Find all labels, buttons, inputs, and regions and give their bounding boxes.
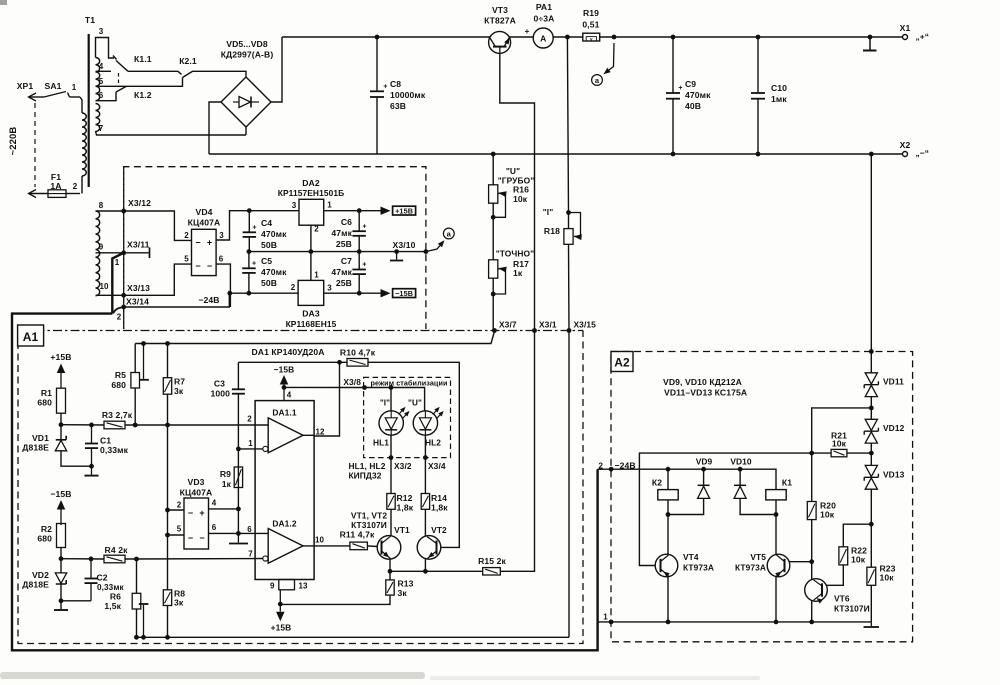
svg-text:−: − (207, 261, 212, 271)
wire R22 to VT6 base (826, 565, 843, 585)
ground A2 (870, 622, 872, 626)
net +15V op-amp supply (278, 602, 283, 607)
svg-text:25В: 25В (336, 239, 352, 249)
svg-text:1,8к: 1,8к (397, 503, 414, 513)
op-amp input 1 wire (236, 447, 241, 452)
wire VT3 base to X3/1 (500, 53, 535, 571)
svg-text:1: 1 (603, 613, 608, 622)
svg-text:VD4: VD4 (195, 207, 212, 217)
A1 bottom rail (134, 636, 569, 638)
wire pot chain (492, 154, 494, 185)
svg-text:1мк: 1мк (771, 94, 787, 104)
svg-text:VD3: VD3 (187, 477, 204, 487)
svg-text:DA2: DA2 (302, 178, 320, 188)
svg-text:4: 4 (212, 499, 217, 508)
wire VD11/VD12 node left (812, 408, 872, 453)
svg-text:X3/2: X3/2 (394, 461, 412, 471)
svg-text:6: 6 (212, 523, 217, 532)
svg-text:X3/14: X3/14 (126, 297, 149, 307)
X3 connector dashed line (123, 167, 125, 329)
svg-text:X3/7: X3/7 (499, 320, 517, 330)
svg-text:1к: 1к (222, 479, 232, 489)
svg-text:VT1: VT1 (394, 525, 410, 535)
svg-text:−24В: −24В (198, 295, 219, 305)
svg-text:КЦ407А: КЦ407А (188, 218, 221, 228)
svg-text:КТ3107И: КТ3107И (351, 520, 387, 530)
svg-text:C9: C9 (685, 79, 696, 89)
svg-text:−: − (188, 533, 193, 543)
svg-text:VТ6: VТ6 (834, 594, 850, 604)
svg-text:С5: С5 (261, 256, 272, 266)
svg-text:С7: С7 (341, 256, 352, 266)
T1 primary winding (80, 97, 82, 113)
scan speck top-left (0, 0, 7, 5)
wire DA2 pin2 (310, 225, 312, 251)
svg-text:DA1.1: DA1.1 (272, 408, 296, 418)
T1 secondary winding 7 (96, 104, 100, 132)
scan smudge bottom (0, 672, 425, 679)
svg-text:VD11–VD13 КС175А: VD11–VD13 КС175А (664, 388, 747, 398)
svg-text:VD2: VD2 (32, 570, 49, 580)
svg-text:X3/11: X3/11 (127, 240, 150, 250)
svg-text:R6: R6 (110, 592, 121, 602)
svg-text:X3/13: X3/13 (127, 283, 150, 293)
svg-text:КР1157ЕН1501Б: КР1157ЕН1501Б (278, 188, 344, 198)
svg-text:С6: С6 (341, 217, 352, 227)
svg-text:12: 12 (315, 428, 325, 437)
svg-text:7: 7 (248, 550, 253, 559)
svg-text:А2: А2 (614, 356, 630, 370)
node at box edge (424, 249, 429, 254)
capacitor C6 (358, 211, 360, 232)
svg-text:Х1: Х1 (900, 23, 911, 33)
wire zener node to R3 (61, 424, 104, 426)
svg-text:3: 3 (327, 284, 332, 293)
connector stub on top rail (141, 341, 146, 346)
capacitor C2 0.33mk (89, 557, 94, 562)
svg-text:С1: С1 (100, 436, 111, 446)
svg-text:С3: С3 (214, 379, 225, 389)
svg-text:−: − (195, 238, 200, 248)
svg-text:+: + (362, 224, 366, 231)
svg-text:VT3: VT3 (492, 5, 508, 15)
svg-text:X3/12: X3/12 (128, 198, 151, 208)
svg-text:+: + (383, 84, 387, 91)
svg-text:6: 6 (99, 91, 104, 100)
wire X2 to zener chain (870, 154, 872, 373)
svg-text:КД2997(А-В): КД2997(А-В) (221, 50, 274, 60)
wire R2 node to R4 (61, 558, 104, 560)
svg-text:3к: 3к (398, 588, 408, 598)
X2 bus wire (209, 153, 902, 155)
svg-text:470мк: 470мк (261, 267, 287, 277)
svg-text:"I": "I" (380, 399, 390, 408)
svg-text:R14: R14 (431, 493, 447, 503)
XP1 dashed link (34, 103, 36, 187)
wire C2 to VD2 foot (61, 600, 91, 602)
svg-text:VT5: VT5 (750, 552, 766, 562)
svg-text:"U": "U" (408, 399, 422, 408)
svg-text:13: 13 (299, 582, 309, 591)
svg-text:−: − (195, 261, 200, 271)
wire VD4 pin6 down (216, 264, 230, 307)
svg-text:К2.1: К2.1 (179, 56, 197, 66)
wire DA3 pin3 to -15V (324, 292, 381, 294)
capacitor C1 0.33mk (89, 423, 94, 428)
dashed regulator box (124, 167, 426, 329)
mid rail 0V wire (249, 251, 426, 253)
svg-text:1: 1 (115, 258, 120, 267)
svg-text:50В: 50В (261, 278, 277, 288)
svg-text:VT4: VT4 (683, 552, 699, 562)
svg-text:+: + (199, 508, 204, 518)
wire VD13 node to R22 (843, 524, 871, 547)
capacitor C7 (358, 252, 360, 270)
VD3 pin4 wire (209, 508, 239, 510)
svg-text:10к: 10к (851, 555, 866, 565)
svg-text:47мк: 47мк (331, 267, 352, 277)
label A1 (18, 325, 44, 346)
svg-text:КИПД32: КИПД32 (348, 471, 381, 481)
wire bridge AC bottom (245, 127, 247, 135)
svg-text:С2: С2 (97, 573, 108, 583)
svg-text:−15В: −15В (395, 289, 413, 298)
wire VT4 base row (639, 453, 811, 565)
svg-text:+15В: +15В (395, 206, 413, 215)
svg-text:HL1: HL1 (373, 438, 389, 448)
svg-text:6: 6 (247, 525, 252, 534)
wire X3/8 row (284, 387, 425, 410)
measurement point a (mid) (426, 242, 444, 252)
emitter rail wire to R15 (390, 570, 483, 572)
svg-text:X3/10: X3/10 (393, 240, 416, 250)
svg-text:+15В: +15В (50, 352, 71, 362)
T1 secondary winding 8-10 (96, 211, 100, 296)
svg-text:1,8к: 1,8к (431, 503, 448, 513)
top bus wire (282, 36, 490, 38)
K1 mechanical link (118, 73, 120, 85)
svg-text:470мк: 470мк (261, 229, 287, 239)
svg-text:VT1, VT2: VT1, VT2 (351, 511, 387, 521)
wire -24V row (229, 292, 298, 294)
svg-text:+: + (252, 261, 256, 268)
capacitor C10 (756, 35, 761, 40)
svg-text:2: 2 (314, 225, 319, 234)
svg-text:КТ973А: КТ973А (683, 563, 714, 573)
svg-text:1: 1 (72, 83, 77, 92)
capacitor C9 (671, 35, 676, 40)
svg-text:режим стабилизации: режим стабилизации (370, 378, 447, 387)
A1 top rail wire (135, 332, 494, 344)
svg-text:X3/8: X3/8 (343, 377, 361, 387)
svg-text:"ТОЧНО": "ТОЧНО" (496, 249, 535, 259)
svg-text:R15 2к: R15 2к (478, 556, 506, 566)
svg-text:"I": "I" (543, 207, 554, 217)
VD3 pin2 wire (168, 509, 185, 511)
stabilization mode dashed box (364, 377, 451, 457)
svg-text:680: 680 (111, 380, 126, 390)
svg-text:R13: R13 (398, 579, 414, 589)
node X2 bus to pots (491, 152, 496, 157)
svg-text:А1: А1 (23, 330, 39, 344)
svg-text:−: − (188, 508, 193, 518)
ground stub below VD3 row (236, 531, 241, 536)
svg-text:2: 2 (291, 283, 296, 292)
svg-text:−15В: −15В (274, 365, 295, 375)
svg-text:47мк: 47мк (331, 228, 352, 238)
svg-text:VD9: VD9 (696, 457, 713, 467)
svg-text:R9: R9 (220, 469, 231, 479)
wire R4 to op-amp input 7 (125, 558, 263, 561)
regulator DA3 KR1168EN15 (298, 280, 324, 305)
svg-text:680: 680 (37, 398, 52, 408)
wire bridge plus to top bus (271, 37, 282, 102)
svg-text:R3 2,7к: R3 2,7к (102, 410, 133, 420)
svg-text:2: 2 (247, 415, 252, 424)
svg-text:2: 2 (73, 182, 78, 191)
svg-text:КР1168ЕН15: КР1168ЕН15 (286, 319, 337, 329)
svg-text:5: 5 (99, 77, 104, 86)
node top bus at shunt left (565, 35, 570, 40)
svg-text:Т1: Т1 (85, 15, 95, 25)
svg-text:VT2: VT2 (431, 525, 447, 535)
capacitor C8 (375, 35, 380, 40)
svg-text:4: 4 (287, 391, 292, 400)
svg-text:+: + (362, 262, 366, 269)
wire taps to K2.1 (128, 70, 178, 72)
svg-text:R19: R19 (583, 8, 599, 18)
svg-text:А: А (540, 34, 546, 44)
VD3 pin6 wire to DA1.2 input 6 (209, 532, 269, 534)
output +15V (381, 207, 391, 215)
svg-text:Д818Е: Д818Е (22, 443, 49, 453)
svg-text:R11 4,7к: R11 4,7к (340, 530, 375, 540)
svg-text:3: 3 (292, 201, 297, 210)
wire R3 to op-amp input 2 (125, 424, 268, 426)
svg-text:С10: С10 (771, 83, 787, 93)
svg-text:КЦ407А: КЦ407А (180, 488, 213, 498)
svg-text:SA1: SA1 (44, 81, 61, 91)
svg-text:VD5...VD8: VD5...VD8 (226, 39, 268, 49)
svg-text:VD1: VD1 (32, 433, 49, 443)
wire VD4 pin3 to C4 rail (216, 211, 299, 240)
svg-text:10: 10 (99, 282, 109, 291)
svg-text:VD9, VD10 КД212А: VD9, VD10 КД212А (663, 377, 742, 387)
svg-text:40В: 40В (685, 101, 701, 111)
svg-text:7: 7 (99, 124, 104, 133)
svg-text:R16: R16 (513, 185, 529, 195)
svg-text:25В: 25В (336, 278, 352, 288)
svg-text:+15В: +15В (271, 623, 292, 633)
svg-text:4: 4 (99, 62, 104, 71)
svg-text:3: 3 (219, 231, 224, 240)
svg-text:а: а (447, 230, 452, 239)
svg-text:К1.2: К1.2 (134, 90, 152, 100)
wire R10 row (238, 361, 347, 363)
wire DA2 pin1 to +15V (324, 210, 381, 212)
svg-text:680: 680 (37, 534, 52, 544)
svg-text:0÷3А: 0÷3А (534, 14, 555, 24)
wire DA3 pin1 (310, 252, 312, 281)
svg-text:10к: 10к (513, 194, 528, 204)
ground VD2/C2 (54, 609, 68, 611)
svg-text:8: 8 (99, 201, 104, 210)
svg-text:R18: R18 (544, 226, 560, 236)
svg-text:1к: 1к (513, 268, 523, 278)
measurement point a (top) (605, 43, 614, 73)
svg-text:X3/15: X3/15 (574, 320, 597, 330)
svg-text:+: + (525, 27, 530, 36)
wire K2.1 to bridge (193, 71, 246, 77)
output -15V (381, 289, 391, 297)
svg-text:КТ827А: КТ827А (484, 16, 516, 26)
T1 secondary winding 3-6 (96, 58, 100, 101)
svg-text:К1: К1 (782, 478, 792, 488)
block A1 dashed border (18, 331, 583, 644)
svg-text:+: + (207, 238, 212, 248)
svg-text:1000: 1000 (210, 389, 230, 399)
svg-text:КТ3107И: КТ3107И (834, 604, 870, 614)
wire bridge minus to X2 bus (209, 102, 221, 154)
svg-text:50В: 50В (261, 240, 277, 250)
svg-text:„+“: „+“ (916, 32, 930, 42)
ground C1/VD1 (85, 475, 99, 477)
svg-text:−: − (199, 533, 204, 543)
svg-text:R5: R5 (115, 370, 126, 380)
svg-text:С8: С8 (390, 79, 401, 89)
terminal X1 (868, 35, 873, 40)
capacitor C4 (247, 208, 252, 213)
svg-text:С4: С4 (261, 218, 272, 228)
svg-text:R4 2к: R4 2к (105, 545, 129, 555)
svg-text:10000мк: 10000мк (390, 90, 426, 100)
svg-text:1: 1 (248, 439, 253, 448)
block A1 dash-dot top border (18, 330, 583, 332)
svg-text:−15В: −15В (50, 489, 71, 499)
svg-text:X3/1: X3/1 (539, 320, 557, 330)
connector stub on bottom rail (141, 635, 146, 640)
svg-text:К2: К2 (652, 478, 662, 488)
svg-text:VD10: VD10 (730, 457, 752, 467)
svg-text:КТ973А: КТ973А (735, 563, 766, 573)
svg-text:10к: 10к (820, 510, 835, 520)
svg-text:HL1, HL2: HL1, HL2 (348, 461, 385, 471)
svg-text:5: 5 (177, 525, 182, 534)
block A2 dashed box (611, 352, 913, 642)
svg-text:X3/4: X3/4 (428, 461, 446, 471)
svg-text:1: 1 (314, 271, 319, 280)
svg-text:DA1.2: DA1.2 (272, 519, 296, 529)
heavy common bottom bus (12, 314, 598, 651)
svg-text:R7: R7 (174, 377, 185, 387)
svg-text:VD13: VD13 (883, 470, 905, 480)
svg-text:63В: 63В (390, 101, 406, 111)
svg-text:3к: 3к (174, 598, 184, 608)
svg-text:R10 4,7к: R10 4,7к (340, 348, 376, 358)
svg-text:10к: 10к (832, 439, 847, 449)
wire X3/14 to heavy bus (113, 307, 123, 313)
node X2 bus to A2 (869, 152, 874, 157)
svg-text:VD11: VD11 (883, 377, 904, 387)
svg-text:9: 9 (99, 243, 104, 252)
svg-text:5: 5 (184, 255, 189, 264)
svg-text:1: 1 (327, 201, 332, 210)
svg-text:"U": "U" (506, 166, 520, 176)
svg-text:470мк: 470мк (685, 90, 711, 100)
svg-text:VD12: VD12 (883, 423, 905, 433)
svg-text:РА1: РА1 (536, 2, 552, 12)
svg-text:а: а (595, 76, 600, 85)
svg-text:v: v (590, 37, 593, 42)
svg-text:~220В: ~220В (8, 127, 19, 156)
svg-text:R2: R2 (41, 524, 52, 534)
svg-text:2: 2 (117, 313, 122, 322)
svg-text:0,33мк: 0,33мк (100, 445, 129, 455)
svg-text:3: 3 (99, 27, 104, 36)
svg-text:„−“: „−“ (916, 148, 930, 158)
svg-text:1,5к: 1,5к (104, 601, 121, 611)
wire R10 to VT2 base (368, 362, 459, 547)
svg-text:К1.1: К1.1 (134, 54, 152, 64)
wire X3/15 column (568, 331, 570, 638)
svg-text:10: 10 (315, 536, 325, 545)
svg-text:ХР1: ХР1 (17, 81, 34, 91)
svg-text:9: 9 (270, 582, 275, 591)
svg-text:+: + (678, 85, 682, 92)
capacitor C5 (247, 249, 252, 254)
svg-text:2: 2 (184, 231, 189, 240)
svg-text:2: 2 (177, 501, 182, 510)
wire VT5 base (789, 561, 811, 563)
svg-text:R1: R1 (41, 388, 52, 398)
T1 core (88, 34, 90, 187)
VD3 pin5 wire (168, 534, 185, 536)
bridge diode symbol (233, 101, 239, 103)
svg-text:0,51: 0,51 (582, 20, 599, 30)
svg-text:HL2: HL2 (425, 438, 441, 448)
svg-text:+: + (252, 225, 256, 232)
svg-text:3к: 3к (174, 386, 184, 396)
svg-text:Х2: Х2 (900, 140, 911, 150)
svg-text:DA1 КР140УД20А: DA1 КР140УД20А (251, 347, 324, 357)
svg-text:R12: R12 (397, 493, 413, 503)
node top bus at shunt right (612, 35, 617, 40)
label A2 (611, 352, 633, 372)
svg-text:10к: 10к (880, 573, 895, 583)
svg-text:DA3: DA3 (302, 309, 320, 319)
svg-text:6: 6 (219, 255, 224, 264)
svg-text:Д818Е: Д818Е (22, 580, 49, 590)
wire R13 return to +15 node (280, 595, 390, 604)
